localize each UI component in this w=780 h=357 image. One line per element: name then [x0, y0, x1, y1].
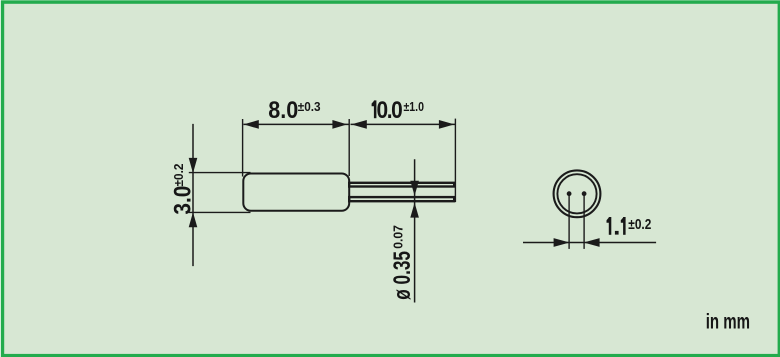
right lead center line down: [583, 195, 585, 249]
end view outer circle: [554, 170, 601, 217]
arrowhead 3.0 top (pointing down): [189, 158, 198, 173]
svg-text:in mm: in mm: [706, 309, 750, 333]
svg-text:±0.3: ±0.3: [298, 100, 321, 115]
arrowhead 3.0 bottom (pointing up): [189, 212, 198, 227]
svg-text:8.0: 8.0: [268, 96, 298, 123]
upper lead (side view outline): [349, 183, 454, 187]
end view inner circle: [557, 174, 596, 213]
label 1.1 decimal point: [615, 231, 619, 235]
arrowhead 1.1 right (pointing left): [584, 238, 600, 247]
svg-text:±0.2: ±0.2: [172, 163, 187, 186]
extension line right (lead ends): [454, 119, 456, 202]
svg-text:±0.2: ±0.2: [628, 216, 651, 232]
dimension line 1.1 (horizontal): [523, 242, 656, 244]
extension line bottom (body bottom): [189, 211, 251, 213]
dimension line 3.0 (vertical): [192, 124, 194, 266]
svg-text:0.07: 0.07: [391, 225, 405, 249]
lower lead (side view outline): [349, 197, 454, 201]
arrowhead lead dia bottom (pointing up): [410, 203, 419, 218]
arrowhead lead dia top (pointing down): [410, 181, 419, 196]
svg-text:0.0: 0.0: [377, 97, 403, 124]
svg-text:±1.0: ±1.0: [404, 100, 425, 114]
label 1.1 first digit 1 (custom glyph): [607, 217, 610, 223]
arrowhead 8.0 right: [332, 120, 347, 129]
left lead dot (end view): [567, 191, 572, 196]
extension line top (body top): [189, 172, 251, 174]
extension line left (8.0 dim, body left edge): [242, 119, 244, 177]
svg-text:3.0: 3.0: [169, 186, 196, 215]
arrowhead 8.0 left: [244, 120, 259, 129]
svg-text:ø 0.35: ø 0.35: [389, 251, 415, 300]
label 10.0 digit 1 (custom glyph): [372, 100, 375, 106]
extension line middle (body right edge): [348, 119, 350, 176]
dimension line 10.0: [351, 123, 456, 125]
right lead dot (end view): [582, 191, 587, 196]
arrowhead 10.0 left: [351, 120, 367, 129]
arrowhead 10.0 right: [439, 120, 455, 129]
label 1.1 second digit 1 (custom glyph): [621, 217, 624, 223]
dimension line 8.0: [244, 123, 349, 125]
dimension line lead diameter (vertical): [414, 159, 416, 302]
left lead center line down: [568, 195, 570, 249]
crystal body side view (rounded can): [243, 174, 349, 211]
arrowhead 1.1 left (pointing right): [554, 238, 570, 247]
